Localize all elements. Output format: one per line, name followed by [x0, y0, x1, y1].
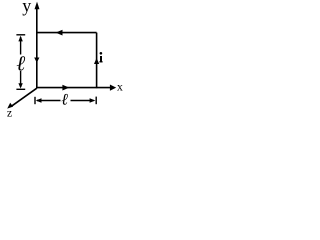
svg-text:ℓ: ℓ: [61, 91, 68, 108]
svg-text:y: y: [22, 0, 31, 16]
svg-text:ℓ: ℓ: [16, 52, 25, 76]
svg-text:z: z: [7, 106, 12, 120]
svg-text:x: x: [117, 79, 123, 93]
